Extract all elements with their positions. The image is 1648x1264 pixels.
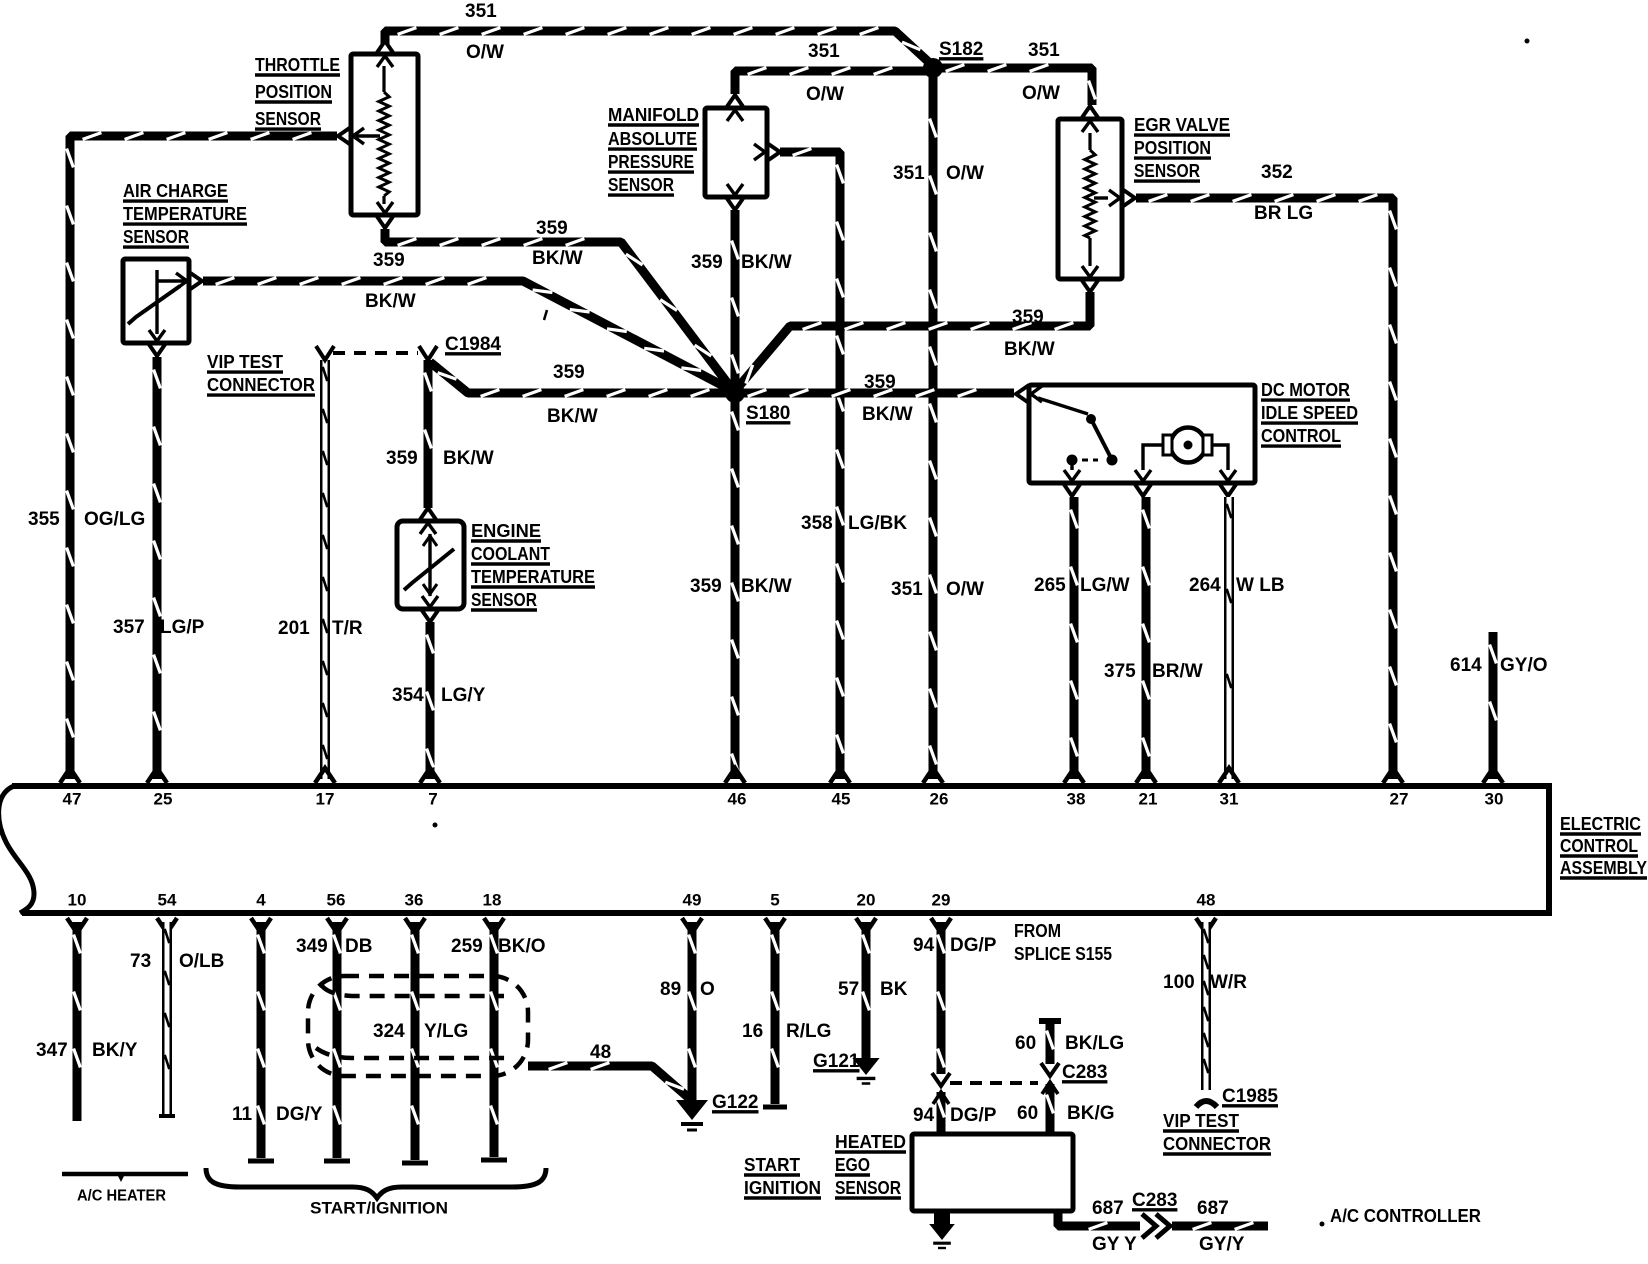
label 264 W LB — [1189, 575, 1285, 596]
svg-text:O/LB: O/LB — [179, 951, 224, 972]
dashed link pin29 to C283 — [950, 1081, 1038, 1085]
wire 355 OG/LG from throttle position sensor to pin 47 — [67, 133, 337, 779]
svg-text:C283: C283 — [1132, 1190, 1177, 1211]
svg-text:359: 359 — [864, 372, 896, 393]
svg-text:54: 54 — [158, 890, 177, 909]
pin 38 label — [1067, 789, 1086, 808]
label 687 left — [1092, 1198, 1124, 1219]
label 357 LG/P — [113, 617, 205, 638]
svg-text:DG/P: DG/P — [950, 935, 997, 956]
wire 359 BK/W from EGR sensor to splice S180 — [735, 292, 1090, 391]
wire 16 R/LG from pin 5 — [763, 922, 787, 1107]
pin 47 label — [63, 789, 82, 808]
svg-text:THROTTLE: THROTTLE — [255, 55, 340, 75]
svg-text:38: 38 — [1067, 789, 1086, 808]
svg-text:TEMPERATURE: TEMPERATURE — [123, 204, 247, 224]
stray dot 1 — [1525, 39, 1530, 44]
resistor in throttle position sensor — [379, 66, 389, 204]
wire 351 O/W from splice S182 to pin 26 — [930, 68, 937, 779]
splice S182 — [923, 58, 943, 78]
svg-text:BK/G: BK/G — [1067, 1103, 1115, 1124]
svg-text:POSITION: POSITION — [1134, 138, 1211, 158]
svg-text:G122: G122 — [712, 1092, 758, 1113]
svg-text:259: 259 — [451, 936, 483, 957]
terminal at MAP bottom — [726, 184, 744, 210]
svg-text:O/W: O/W — [806, 84, 844, 105]
pin 10 terminal — [67, 918, 87, 933]
label FROM SPLICE S155 — [1014, 921, 1112, 964]
svg-text:375: 375 — [1104, 661, 1136, 682]
terminal DC motor pin 31 — [1219, 470, 1237, 496]
svg-text:358: 358 — [801, 513, 833, 534]
svg-text:S180: S180 — [746, 403, 790, 424]
switch in DC motor box — [1038, 398, 1118, 470]
svg-text:GY/O: GY/O — [1500, 655, 1548, 676]
connector C1984 arrow — [419, 346, 437, 360]
label 94 DG/P upper — [913, 935, 997, 956]
svg-text:SENSOR: SENSOR — [608, 175, 674, 195]
svg-text:ABSOLUTE: ABSOLUTE — [608, 129, 697, 149]
label C283 lower — [1132, 1190, 1177, 1211]
svg-text:687: 687 — [1197, 1198, 1229, 1219]
svg-text:SENSOR: SENSOR — [1134, 161, 1200, 181]
pin 45 label — [832, 789, 851, 808]
svg-text:SENSOR: SENSOR — [471, 590, 537, 610]
svg-text:48: 48 — [1197, 890, 1216, 909]
terminal at ECT top — [419, 508, 437, 534]
label ELECTRIC CONTROL ASSEMBLY — [1560, 814, 1647, 878]
wire 48 from harness loop to ground G122 — [528, 1063, 690, 1099]
manifold absolute pressure sensor box — [705, 108, 767, 197]
svg-text:O: O — [700, 979, 715, 1000]
terminal at EGR top — [1081, 106, 1099, 132]
svg-text:O/W: O/W — [946, 163, 984, 184]
label THROTTLE POSITION SENSOR — [255, 55, 340, 129]
svg-text:60: 60 — [1017, 1103, 1038, 1124]
heated EGO sensor ground — [929, 1211, 955, 1248]
svg-text:5: 5 — [770, 890, 779, 909]
svg-text:7: 7 — [428, 789, 437, 808]
label C283 upper — [1062, 1062, 1107, 1083]
label 354 LG/Y — [392, 685, 486, 706]
svg-text:60: 60 — [1015, 1033, 1036, 1054]
pin 10 label — [68, 890, 87, 909]
svg-text:TEMPERATURE: TEMPERATURE — [471, 567, 595, 587]
svg-text:BK/W: BK/W — [547, 406, 598, 427]
wire 94 DG/P to heated EGO sensor — [933, 1092, 949, 1134]
svg-text:355: 355 — [28, 509, 60, 530]
svg-text:359: 359 — [691, 252, 723, 273]
svg-text:POSITION: POSITION — [255, 82, 332, 102]
svg-text:351: 351 — [465, 1, 497, 22]
pin 36 terminal — [405, 918, 425, 933]
svg-text:A/C CONTROLLER: A/C CONTROLLER — [1330, 1206, 1481, 1226]
svg-text:BK: BK — [880, 979, 908, 1000]
label 60 BK/LG — [1015, 1033, 1124, 1054]
terminal at ACT right — [176, 272, 202, 290]
terminal DC motor pin 21 — [1134, 470, 1152, 496]
svg-text:PRESSURE: PRESSURE — [608, 152, 694, 172]
svg-text:20: 20 — [857, 890, 876, 909]
label 375 BR/W — [1104, 661, 1203, 682]
svg-text:46: 46 — [728, 789, 747, 808]
throttle position sensor box — [351, 54, 418, 215]
pin 4 label — [256, 890, 266, 909]
svg-text:48: 48 — [590, 1042, 611, 1063]
label 351 O/W to EGR — [1022, 40, 1060, 104]
wire 57 BK from pin 20 to ground G121 — [863, 922, 870, 1058]
svg-text:BK/W: BK/W — [532, 248, 583, 269]
splice S180 — [725, 383, 745, 403]
pin 30 label — [1485, 789, 1504, 808]
label MANIFOLD ABSOLUTE PRESSURE SENSOR — [608, 105, 699, 195]
svg-text:START: START — [744, 1155, 800, 1175]
svg-text:MANIFOLD: MANIFOLD — [608, 105, 699, 125]
svg-text:89: 89 — [660, 979, 681, 1000]
svg-text:30: 30 — [1485, 789, 1504, 808]
wire 89 O from pin 49 to ground G122 — [689, 922, 696, 1100]
label 324 Y/LG — [373, 1021, 468, 1042]
wire 347 BK/Y from pin 10 — [74, 922, 81, 1121]
label 351 O/W MAP — [806, 41, 844, 105]
svg-text:26: 26 — [930, 789, 949, 808]
wiper arrow in EGR valve position sensor — [1094, 196, 1108, 199]
svg-text:100: 100 — [1163, 972, 1195, 993]
wire 100 W/R from pin 48 to C1985 — [1204, 922, 1209, 1090]
svg-text:GY/Y: GY/Y — [1199, 1234, 1245, 1255]
label 201 T/R — [278, 618, 363, 639]
svg-text:R/LG: R/LG — [786, 1021, 831, 1042]
svg-text:SENSOR: SENSOR — [123, 227, 189, 247]
thermistor in engine coolant temperature sensor — [404, 534, 454, 596]
svg-text:DG/P: DG/P — [950, 1105, 997, 1126]
svg-text:GY Y: GY Y — [1092, 1234, 1137, 1255]
svg-text:73: 73 — [130, 951, 151, 972]
wire 687 GY/Y from EGO sensor to C283 — [1058, 1211, 1140, 1229]
pin 17 label — [316, 789, 335, 808]
svg-text:VIP TEST: VIP TEST — [207, 352, 283, 372]
svg-text:47: 47 — [63, 789, 82, 808]
electric control assembly outline — [0, 786, 1549, 913]
label BK/W ACT wire — [365, 291, 416, 312]
label VIP TEST CONNECTOR upper — [207, 352, 315, 395]
pin 38 terminal — [1064, 768, 1084, 783]
svg-text:CONTROL: CONTROL — [1261, 426, 1341, 446]
wire 359 BK/W from C1984 to splice S180 — [430, 362, 735, 396]
wire 73 O/LB from pin 54 — [159, 922, 175, 1116]
svg-text:94: 94 — [913, 1105, 935, 1126]
thermistor in air charge temperature sensor — [128, 270, 184, 334]
svg-text:SENSOR: SENSOR — [835, 1178, 901, 1198]
label GY/Y right — [1199, 1234, 1245, 1255]
pin 49 terminal — [682, 918, 702, 933]
pin 18 label — [483, 890, 502, 909]
svg-text:31: 31 — [1220, 789, 1239, 808]
pin 47 terminal — [60, 768, 80, 783]
pin 26 label — [930, 789, 949, 808]
pin 31 label — [1220, 789, 1239, 808]
label 351 O/W lower — [891, 579, 984, 600]
label 614 GY/O — [1450, 655, 1548, 676]
wire 359 BK/W from C1984 to engine coolant sensor — [425, 360, 432, 508]
svg-text:324: 324 — [373, 1021, 405, 1042]
svg-text:21: 21 — [1139, 789, 1158, 808]
svg-text:EGO: EGO — [835, 1155, 870, 1175]
pin 46 terminal — [725, 768, 745, 783]
label C1985 — [1222, 1086, 1278, 1107]
label 259 BK/O — [451, 936, 546, 957]
air charge temperature sensor box — [123, 259, 189, 343]
terminal DC motor pin 38 — [1063, 470, 1081, 496]
svg-text:BK/W: BK/W — [443, 448, 494, 469]
svg-text:BK/W: BK/W — [1004, 339, 1055, 360]
label 359 BK/W MAP lower — [690, 576, 792, 597]
label 60 BK/G — [1017, 1103, 1115, 1124]
label 349 DB — [296, 936, 372, 957]
pin 45 terminal — [830, 768, 850, 783]
wire 352 BR LG from EGR sensor to pin 27 — [1136, 195, 1396, 779]
svg-text:357: 357 — [113, 617, 145, 638]
label 11 DG/Y — [232, 1104, 323, 1125]
wire 359 from throttle position sensor to splice S180 — [385, 229, 735, 393]
wire 359 BK/W from splice S180 to DC motor box — [735, 390, 1014, 397]
svg-text:10: 10 — [68, 890, 87, 909]
svg-text:29: 29 — [932, 890, 951, 909]
svg-text:359: 359 — [690, 576, 722, 597]
svg-text:A/C HEATER: A/C HEATER — [77, 1188, 166, 1205]
svg-text:201: 201 — [278, 618, 310, 639]
motor M in DC motor box — [1143, 428, 1228, 471]
pin 48 label — [1197, 890, 1216, 909]
svg-text:359: 359 — [1012, 307, 1044, 328]
DC motor idle speed control box — [1029, 385, 1255, 483]
label 347 BK/Y — [36, 1040, 138, 1061]
label DC MOTOR IDLE SPEED CONTROL — [1261, 380, 1358, 446]
pin 27 terminal — [1383, 768, 1403, 783]
pin 29 terminal — [931, 918, 951, 933]
ground G122 — [676, 1100, 708, 1130]
svg-text:LG/Y: LG/Y — [441, 685, 486, 706]
svg-text:ASSEMBLY: ASSEMBLY — [1560, 858, 1647, 878]
label 687 right — [1197, 1198, 1229, 1219]
wire 60 BK/LG stub above C283 — [1039, 1021, 1061, 1076]
stray dot 2 — [433, 823, 438, 828]
svg-text:ENGINE: ENGINE — [471, 521, 541, 541]
svg-text:16: 16 — [742, 1021, 763, 1042]
label 359 BK/W MAP upper — [691, 252, 792, 273]
svg-text:SENSOR: SENSOR — [255, 109, 321, 129]
pin 5 terminal — [765, 918, 785, 933]
pin 18 terminal — [484, 918, 504, 933]
label 359 BK/W C1984 — [386, 448, 494, 469]
label S182 — [939, 39, 983, 60]
svg-text:25: 25 — [154, 789, 173, 808]
svg-text:COOLANT: COOLANT — [471, 544, 550, 564]
svg-text:BR/W: BR/W — [1152, 661, 1203, 682]
svg-text:CONNECTOR: CONNECTOR — [207, 375, 315, 395]
svg-text:265: 265 — [1034, 575, 1066, 596]
label 359 BK/W TPS wire — [532, 218, 583, 269]
pin 49 label — [683, 890, 702, 909]
wire 324 Y/LG from pin 36 — [402, 922, 428, 1163]
label 94 DG/P lower — [913, 1105, 997, 1126]
A/C heater bracket line — [62, 1174, 188, 1182]
pin 20 terminal — [856, 918, 876, 933]
svg-text:36: 36 — [405, 890, 424, 909]
svg-text:352: 352 — [1261, 162, 1293, 183]
heated EGO sensor box — [912, 1134, 1073, 1211]
label 100 W/R — [1163, 972, 1247, 993]
label GY Y left — [1092, 1234, 1137, 1255]
svg-text:START/IGNITION: START/IGNITION — [310, 1198, 448, 1217]
svg-text:C1984: C1984 — [445, 334, 501, 355]
svg-text:359: 359 — [553, 362, 585, 383]
wire 687 GY/Y from C283 to A/C controller — [1172, 1223, 1268, 1230]
pin 25 terminal — [147, 768, 167, 783]
terminal at ACT bottom — [148, 330, 166, 356]
label 352 BR LG — [1254, 162, 1313, 224]
svg-text:Y/LG: Y/LG — [424, 1021, 468, 1042]
svg-text:DC MOTOR: DC MOTOR — [1261, 380, 1350, 400]
label 73 O/LB — [130, 951, 224, 972]
svg-text:ELECTRIC: ELECTRIC — [1560, 814, 1641, 834]
svg-text:BK/W: BK/W — [862, 404, 913, 425]
label 48 — [590, 1042, 611, 1063]
svg-text:C1985: C1985 — [1222, 1086, 1278, 1107]
wire 358 LG/BK from MAP sensor to pin 45 — [780, 149, 843, 779]
terminal at TPS top — [376, 41, 394, 67]
svg-text:C283: C283 — [1062, 1062, 1107, 1083]
svg-text:BK/Y: BK/Y — [92, 1040, 138, 1061]
label 351 O/W top — [465, 1, 504, 63]
label G122 — [712, 1092, 759, 1113]
pin 36 label — [405, 890, 424, 909]
label 57 BK — [838, 979, 908, 1000]
pin 17 terminal — [315, 768, 335, 783]
svg-text:S182: S182 — [939, 39, 983, 60]
wire 614 GY/O stub to pin 30 — [1490, 632, 1497, 779]
start ignition brace — [206, 1168, 546, 1198]
terminal at MAP top — [726, 95, 744, 121]
svg-text:HEATED: HEATED — [835, 1132, 906, 1152]
label C1984 — [445, 334, 501, 355]
terminal at EGR bottom — [1081, 266, 1099, 292]
svg-text:O/W: O/W — [466, 42, 504, 63]
label 16 R/LG — [742, 1021, 831, 1042]
svg-text:BK/LG: BK/LG — [1065, 1033, 1124, 1054]
pin 54 label — [158, 890, 177, 909]
svg-text:359: 359 — [373, 250, 405, 271]
wire 351 O/W from splice S182 to EGR valve position sensor — [933, 65, 1095, 105]
pin 5 label — [770, 890, 779, 909]
label 359 at TPS — [373, 250, 405, 271]
svg-text:DG/Y: DG/Y — [276, 1104, 323, 1125]
svg-text:57: 57 — [838, 979, 859, 1000]
svg-text:LG/P: LG/P — [160, 617, 205, 638]
svg-text:FROM: FROM — [1014, 921, 1061, 941]
svg-text:CONNECTOR: CONNECTOR — [1163, 1134, 1271, 1154]
label 359 BK/W EGR — [1004, 307, 1055, 360]
svg-text:614: 614 — [1450, 655, 1482, 676]
pin 7 label — [428, 789, 437, 808]
terminal at TPS bottom — [376, 202, 394, 228]
svg-text:BK/W: BK/W — [365, 291, 416, 312]
svg-text:BK/O: BK/O — [498, 936, 546, 957]
pin 54 terminal — [157, 918, 177, 933]
label 89 O — [660, 979, 715, 1000]
engine coolant temperature sensor box — [397, 521, 464, 609]
connector C283 inline — [1142, 1214, 1170, 1238]
label HEATED EGO SENSOR — [835, 1132, 906, 1198]
wire 264 W/LB from DC motor to pin 31 — [1227, 497, 1232, 779]
pin 25 label — [154, 789, 173, 808]
svg-text:EGR VALVE: EGR VALVE — [1134, 115, 1230, 135]
label ENGINE COOLANT TEMPERATURE SENSOR — [471, 521, 595, 610]
svg-text:351: 351 — [893, 163, 925, 184]
ground G121 — [852, 1058, 879, 1084]
svg-text:W LB: W LB — [1236, 575, 1285, 596]
svg-text:LG/W: LG/W — [1080, 575, 1130, 596]
label EGR VALVE POSITION SENSOR — [1134, 115, 1230, 181]
label AIR CHARGE TEMPERATURE SENSOR — [123, 181, 247, 247]
svg-text:AIR CHARGE: AIR CHARGE — [123, 181, 228, 201]
wire 349 DB from pin 56 — [324, 922, 350, 1161]
connector C1985 — [1196, 1101, 1217, 1107]
svg-text:264: 264 — [1189, 575, 1221, 596]
svg-text:OG/LG: OG/LG — [84, 509, 145, 530]
terminal at TPS left — [338, 127, 364, 145]
svg-text:4: 4 — [256, 890, 266, 909]
pin 46 label — [728, 789, 747, 808]
wire 11 DG/Y from pin 4 — [248, 922, 274, 1161]
label A/C CONTROLLER — [1320, 1206, 1482, 1227]
wire 359 BK/W from air charge sensor to splice S180 — [203, 278, 735, 392]
svg-text:O/W: O/W — [946, 579, 984, 600]
label G121 — [813, 1051, 860, 1072]
wire 357 LG/P from air charge sensor to pin 25 — [154, 357, 161, 779]
label 359 BK/W diag — [547, 362, 598, 427]
terminal at EGR right — [1109, 189, 1135, 207]
svg-text:45: 45 — [832, 789, 851, 808]
svg-text:354: 354 — [392, 685, 424, 706]
svg-text:DB: DB — [345, 936, 372, 957]
svg-text:17: 17 — [316, 789, 335, 808]
pin 56 terminal — [327, 918, 347, 933]
connector C283 vertical — [1042, 1082, 1058, 1094]
svg-text:11: 11 — [232, 1104, 253, 1125]
wire 94 DG/P from pin 29 to connector — [932, 922, 950, 1086]
svg-text:27: 27 — [1390, 789, 1409, 808]
pin 26 terminal — [923, 768, 943, 783]
pin 56 label — [327, 890, 346, 909]
pin 48 terminal — [1196, 918, 1216, 933]
label 355 OG/LG — [28, 509, 145, 530]
wire 201 T/R VIP test connector to pin 17 — [316, 346, 334, 779]
svg-text:IGNITION: IGNITION — [744, 1178, 821, 1198]
label 351 O/W mid — [893, 163, 984, 184]
svg-text:CONTROL: CONTROL — [1560, 836, 1638, 856]
pin 21 terminal — [1136, 768, 1156, 783]
svg-text:351: 351 — [891, 579, 923, 600]
svg-text:O/W: O/W — [1022, 83, 1060, 104]
svg-text:56: 56 — [327, 890, 346, 909]
label A/C HEATER — [77, 1188, 166, 1205]
start ignition harness dashed loop — [308, 976, 528, 1076]
svg-text:BR LG: BR LG — [1254, 203, 1313, 224]
wire 351 O/W from MAP sensor to splice S182 — [735, 68, 930, 94]
pin 29 label — [932, 890, 951, 909]
svg-text:351: 351 — [1028, 40, 1060, 61]
